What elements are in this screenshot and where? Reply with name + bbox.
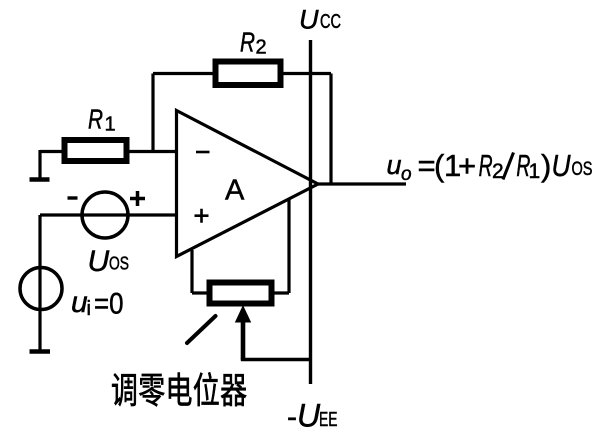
svg-text:i: i <box>87 298 91 320</box>
svg-text:A: A <box>225 175 245 207</box>
svg-text:U: U <box>88 245 110 278</box>
svg-text:2: 2 <box>492 160 504 183</box>
svg-text:OS: OS <box>572 159 593 180</box>
svg-text:u: u <box>71 286 88 319</box>
svg-text:U: U <box>299 5 319 35</box>
svg-text:1: 1 <box>529 160 541 183</box>
svg-text:R: R <box>479 148 493 183</box>
svg-text:R: R <box>88 104 103 135</box>
svg-text:u: u <box>387 150 402 180</box>
svg-text:U: U <box>297 398 321 433</box>
svg-text:CC: CC <box>320 10 341 33</box>
svg-text:o: o <box>401 164 412 185</box>
svg-text:EE: EE <box>319 408 338 431</box>
svg-text:+: + <box>458 148 476 183</box>
svg-text:1: 1 <box>105 114 116 136</box>
svg-text:-: - <box>287 401 297 433</box>
svg-text:): ) <box>541 148 551 183</box>
svg-text:=0: =0 <box>94 288 124 321</box>
svg-text:=: = <box>418 148 436 183</box>
svg-text:OS: OS <box>109 254 129 274</box>
svg-text:R: R <box>240 27 255 58</box>
svg-text:U: U <box>552 148 572 183</box>
svg-text:2: 2 <box>256 37 267 59</box>
